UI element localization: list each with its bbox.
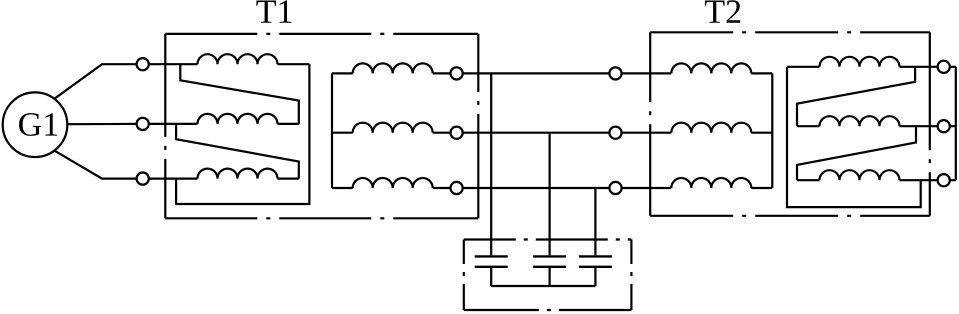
wire: T2 wye coil 2 to bus: [751, 132, 772, 134]
wire: T2 delta return (drop from row 3, bottom run, left edge up to row 1): [787, 67, 921, 207]
wire: T2 wye coil 3 to bus: [751, 187, 772, 189]
wire: right load bus: [955, 67, 957, 180]
wire: T2 delta coil 2 to terminal: [900, 125, 938, 127]
label T2: [705, 0, 740, 23]
wire: coil A to delta right edge: [278, 63, 310, 65]
wire: phase A into T1: [149, 63, 198, 65]
wire: T2 delta coil 3 to terminal: [900, 179, 938, 181]
capacitor C3: [579, 256, 612, 266]
label T1: [256, 0, 291, 22]
node terminal 1 after T1: [451, 67, 463, 79]
wire: phase C into T1: [149, 178, 198, 180]
wire: bus to wye coil 3: [332, 187, 353, 189]
wire: T1 delta return C junction to A-coil end (drop, bottom run, right edge): [176, 64, 309, 204]
wire: transmission line 1: [463, 72, 610, 74]
wire: coil B right end: [278, 123, 299, 125]
node terminal 2 after T1: [451, 127, 463, 139]
wire: transmission line 3: [463, 187, 610, 189]
node terminal 3 right: [938, 174, 950, 186]
wire: line 3 into T2 wye: [622, 187, 672, 189]
wire: line 1 into T2 wye: [622, 72, 672, 74]
wire: T2 delta link 2 to coil-3 start (drop, diagonal, riser): [797, 126, 916, 180]
winding T2 wye coil 2: [671, 123, 751, 133]
winding T2 delta coil 3: [820, 170, 900, 180]
wire: T1 delta link A to B-coil end (drop, diagonal, riser): [180, 64, 298, 124]
wire: right terminals to load bus, stubs: [950, 67, 956, 180]
wire: line 2 tap down to capacitor 2: [548, 133, 550, 256]
node terminal 1 before T2: [609, 67, 621, 79]
transformer box T1 (dash-dot boundary): [165, 34, 478, 218]
wire: T1 wye neutral bus: [331, 73, 333, 188]
wire: bus to wye coil 2: [332, 132, 353, 134]
wire: G1 to terminal 2 (middle phase): [67, 123, 136, 125]
wire: G1 to terminal 1 (top phase): [54, 64, 136, 99]
wire: wye coil 1 to line 1 terminal: [433, 72, 451, 74]
wire: T2 delta row 3: [797, 179, 820, 181]
wire: T1 delta link B to C-coil end (drop, diagonal, riser): [176, 124, 299, 179]
wire: T2 wye neutral bus: [771, 73, 773, 188]
transformer box T2 (dash-dot boundary): [650, 32, 930, 216]
wire: wye coil 3 to line 3 terminal: [433, 187, 451, 189]
wire: bus to wye coil 1: [332, 72, 353, 74]
wire: line 1 tap down to capacitor 1: [490, 73, 492, 255]
winding T2 wye coil 1: [671, 63, 751, 73]
capacitor C2: [533, 256, 566, 266]
label G1: [19, 113, 57, 136]
wire: T2 delta row 2: [797, 125, 820, 127]
wire: capacitor 3 to neutral bus: [594, 268, 596, 286]
wire: capacitor 2 to neutral bus: [548, 268, 550, 286]
wire: line 2 into T2 wye: [622, 132, 672, 134]
node terminal 3 before T2: [609, 182, 621, 194]
winding T1 wye coil 2: [353, 123, 433, 133]
node terminal 1 right: [938, 61, 950, 73]
wire: phase B into T1: [149, 123, 198, 125]
wire: wye coil 2 to line 2 terminal: [433, 132, 451, 134]
wire: transmission line 2: [463, 132, 610, 134]
wire: capacitor 1 to neutral bus: [490, 268, 492, 286]
capacitor bank box (dash-dot boundary): [464, 240, 632, 311]
winding T1 delta coil A: [198, 54, 278, 64]
winding T1 wye coil 1: [353, 63, 433, 73]
wire: coil C right end: [278, 178, 299, 180]
winding T2 wye coil 3: [671, 178, 751, 188]
wire: T2 wye coil 1 to bus: [751, 72, 772, 74]
node terminal 1 left: [137, 58, 149, 70]
node terminal 2 left: [137, 118, 149, 130]
winding T2 delta coil 2: [820, 116, 900, 126]
node terminal 3 left: [137, 173, 149, 185]
capacitor C1: [475, 256, 508, 266]
winding T1 delta coil C: [198, 169, 278, 179]
node terminal 2 before T2: [609, 127, 621, 139]
wire: T2 delta coil 1 to terminal: [900, 66, 938, 68]
wire: T2 delta left edge and row 1: [787, 66, 820, 68]
wire: T2 delta link 1 to coil-2 start (drop, diagonal, riser): [797, 67, 915, 126]
winding T1 delta coil B: [198, 114, 278, 124]
node terminal 3 after T1: [451, 182, 463, 194]
wire: line 3 tap down to capacitor 3: [594, 188, 596, 255]
winding T2 delta coil 1: [820, 57, 900, 67]
node terminal 2 right: [938, 120, 950, 132]
generator G1 circle: [3, 92, 68, 157]
winding T1 wye coil 3: [353, 178, 433, 188]
wire: capacitor neutral bus: [491, 285, 595, 287]
wire: G1 to terminal 3 (bottom phase): [54, 151, 136, 179]
